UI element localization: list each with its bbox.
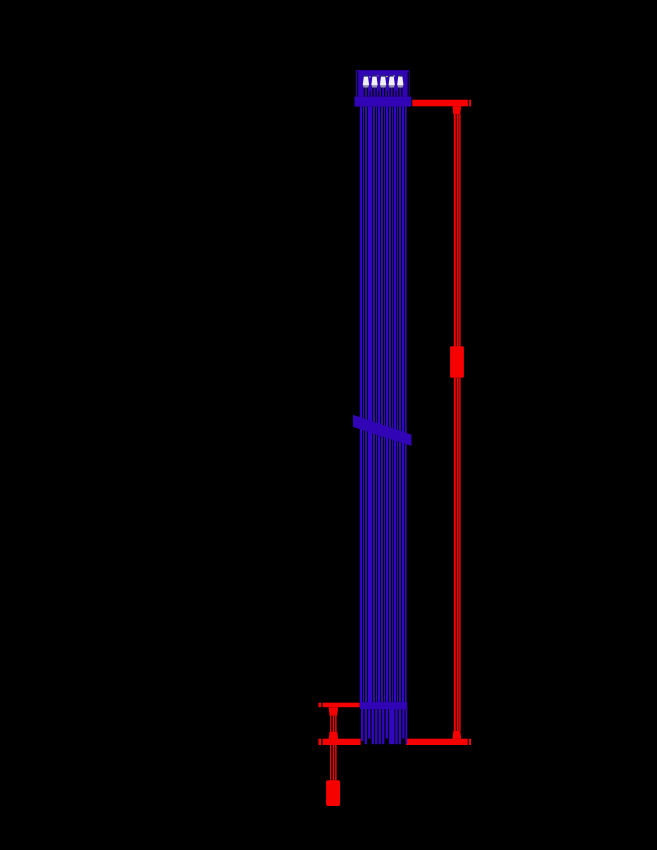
terminal pin 2 <box>371 75 377 97</box>
wire bundle W1 (17 conductors) <box>360 107 407 703</box>
connector J1 housing <box>356 70 410 96</box>
frayed wire 5 <box>375 709 377 745</box>
shared bottom extension line left segment <box>323 739 361 745</box>
frayed wire 2 <box>365 709 367 745</box>
frayed wire 9 thick conductor end <box>389 709 394 745</box>
frayed wire 6 <box>379 709 381 745</box>
frayed wire 10 <box>395 709 397 745</box>
frayed wire 1 <box>361 709 363 742</box>
dimension D2 leader below bottom line <box>330 745 337 781</box>
frayed wire ends below tape <box>361 709 407 745</box>
diagonal tape label across bundle <box>353 415 412 446</box>
frayed wire 13 <box>405 709 407 745</box>
terminal pin 4 <box>389 75 395 97</box>
frayed wire 3 <box>368 709 370 739</box>
dimension D1 value label (rotated text block) <box>450 346 464 378</box>
frayed wire 12 <box>402 709 404 739</box>
connector J1 collar band <box>355 97 412 107</box>
shared bottom extension line right segment <box>406 739 468 745</box>
dimension D1 line lower segment <box>454 378 461 731</box>
dimension D1 line upper segment <box>454 114 461 346</box>
frayed wire 4 <box>372 709 374 745</box>
dimension D2 top extension tick <box>318 703 321 708</box>
bundle conductor gaps <box>362 107 405 703</box>
dimension D1 top arrowhead <box>453 106 462 114</box>
dimension D1 top extension line <box>412 100 468 107</box>
bottom tape band <box>360 702 407 709</box>
dimension D2 line segment <box>330 716 337 732</box>
dimension D2 top arrowhead <box>329 707 338 716</box>
dimension D2 top extension line <box>323 703 360 708</box>
terminal pin 1 <box>363 75 369 97</box>
dimension D1 bottom arrowhead <box>453 731 462 739</box>
frayed wire 11 <box>399 709 401 745</box>
connector J1 housing inner outline gaps <box>357 71 358 96</box>
terminal pin 5 <box>397 75 403 97</box>
dimension D2 bottom arrowhead <box>329 732 338 739</box>
frayed wire 8 <box>386 709 388 739</box>
terminal pin 3 <box>380 75 386 97</box>
antialias noise specks on terminal row <box>369 75 400 77</box>
frayed wire 7 <box>382 709 384 745</box>
shared bottom extension line right tick <box>469 739 471 745</box>
housing mid gaps between terminals <box>370 91 397 97</box>
dimension D1 top extension tick <box>469 100 471 107</box>
dimension D2 value label (rotated text block) <box>326 780 340 806</box>
shared bottom extension line left tick <box>318 739 321 745</box>
